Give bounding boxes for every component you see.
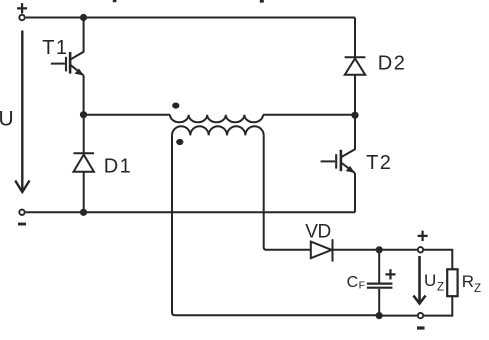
- svg-text:U: U: [0, 108, 14, 131]
- svg-text:D1: D1: [104, 156, 133, 178]
- resistor RZ: [447, 269, 457, 296]
- voltage arrow U: [15, 31, 29, 193]
- svg-text:+: +: [16, 0, 28, 20]
- transistor T1: [51, 52, 84, 76]
- wire D2 anode: [354, 75, 356, 116]
- wire T2 collector: [342, 115, 355, 157]
- junction node T1 collector: [80, 14, 87, 21]
- wire secondary right lead: [264, 135, 311, 249]
- svg-text:U: U: [424, 271, 436, 290]
- terminal output +: [418, 247, 423, 252]
- junction node filter plus: [376, 246, 383, 253]
- svg-text:C: C: [347, 274, 359, 291]
- transformer primary winding: [170, 115, 263, 123]
- diode VD: [311, 239, 333, 261]
- transformer secondary polarity dot: [176, 139, 183, 145]
- wire mid rail left: [84, 114, 171, 116]
- svg-text:F: F: [359, 279, 365, 291]
- wire VD cathode to output +: [333, 249, 418, 251]
- svg-text:T2: T2: [366, 152, 392, 174]
- svg-text:Z: Z: [437, 282, 444, 294]
- cropped text remnant 2: [260, 0, 264, 3]
- wire output top right: [424, 250, 452, 269]
- svg-text:Z: Z: [474, 283, 481, 295]
- svg-text:+: +: [417, 225, 429, 247]
- junction node bottom rail D1: [80, 209, 87, 216]
- junction node filter minus: [376, 312, 383, 319]
- cropped text remnant 1: [113, 0, 117, 2]
- terminal input +: [19, 15, 24, 20]
- wire D2 cathode drop: [354, 18, 356, 58]
- wire T1 collector: [71, 18, 84, 60]
- transformer primary polarity dot: [172, 103, 179, 109]
- junction node primary left: [80, 111, 87, 118]
- label - output: [417, 326, 425, 329]
- diode D2: [345, 57, 366, 74]
- wire bottom rail: [26, 211, 355, 213]
- voltage arrow UZ: [413, 256, 425, 304]
- diode D1: [74, 153, 95, 172]
- wire D1 cathode: [83, 115, 85, 154]
- svg-text:T1: T1: [42, 37, 68, 59]
- junction node switch D2 T2: [351, 112, 358, 119]
- label - input: [18, 223, 26, 226]
- wire T1 emitter: [83, 75, 85, 114]
- svg-text:R: R: [462, 272, 474, 291]
- wire output bottom rail: [379, 315, 417, 317]
- svg-text:+: +: [385, 264, 397, 286]
- transistor T2: [321, 150, 355, 173]
- transformer secondary winding: [172, 126, 264, 135]
- wire mid rail right: [263, 114, 355, 116]
- wire top rail: [26, 17, 355, 19]
- wire secondary left lead: [172, 135, 379, 315]
- wire D1 anode: [83, 172, 85, 213]
- terminal output -: [418, 313, 423, 318]
- wire output bottom right: [424, 296, 452, 315]
- capacitor CF: [367, 250, 393, 316]
- svg-text:D2: D2: [378, 53, 407, 75]
- terminal input -: [19, 210, 24, 215]
- svg-text:VD: VD: [305, 221, 330, 242]
- wire T2 emitter: [354, 173, 356, 212]
